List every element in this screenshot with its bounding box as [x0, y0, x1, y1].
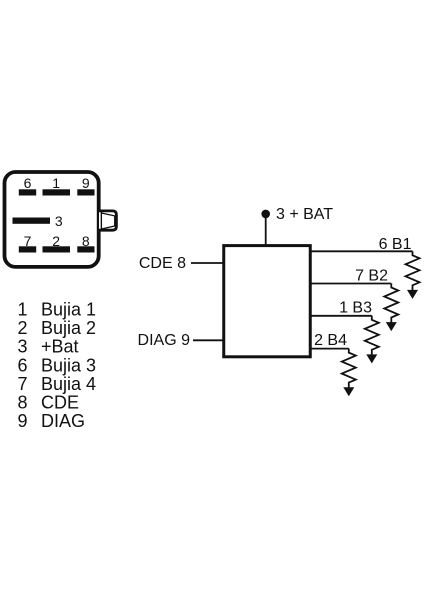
svg-text:6: 6 [17, 355, 27, 375]
svg-text:8: 8 [17, 393, 27, 413]
svg-text:7: 7 [17, 374, 27, 394]
svg-text:1: 1 [52, 175, 60, 191]
svg-text:1 B3: 1 B3 [339, 300, 372, 317]
svg-text:9: 9 [17, 411, 27, 431]
svg-text:9: 9 [82, 175, 90, 191]
svg-text:3: 3 [17, 337, 27, 357]
pin 2 contact bar [43, 246, 71, 252]
wire: DIAG 9 input [193, 339, 224, 341]
connector keying tab (right side) [99, 211, 116, 230]
svg-text:DIAG 9: DIAG 9 [138, 332, 191, 349]
svg-text:CDE: CDE [41, 393, 79, 413]
wire: output B3 [310, 315, 372, 317]
ECU module box U1 [224, 246, 311, 357]
pin 7 contact bar [19, 246, 36, 252]
svg-text:3: 3 [55, 213, 63, 229]
svg-text:1: 1 [17, 300, 27, 320]
connector J1 body outline [5, 172, 99, 267]
pin 6 contact bar [19, 189, 36, 195]
svg-text:7 B2: 7 B2 [355, 268, 388, 285]
wire: output B2 [310, 283, 391, 285]
svg-text:Bujia 1: Bujia 1 [41, 300, 96, 320]
pin 3 contact bar [13, 218, 51, 224]
connector tab inner face [101, 213, 114, 229]
pin 9 contact bar [77, 189, 94, 195]
svg-text:DIAG: DIAG [41, 411, 85, 431]
wire: output B4 [310, 348, 349, 350]
spark plug gap B3 (zigzag + arrow) [365, 316, 379, 364]
wire: BAT dot to box top [265, 216, 267, 245]
spark plug gap B2 (zigzag + arrow) [384, 284, 398, 332]
spark plug gap B4 (zigzag + arrow) [342, 349, 356, 397]
svg-text:2: 2 [17, 318, 27, 338]
svg-text:+Bat: +Bat [41, 337, 79, 357]
wire: output B1 [310, 250, 413, 252]
wire: CDE 8 input [191, 262, 224, 264]
svg-text:3 + BAT: 3 + BAT [276, 206, 333, 223]
svg-text:Bujia 3: Bujia 3 [41, 355, 96, 375]
svg-text:2 B4: 2 B4 [314, 332, 347, 349]
svg-text:CDE 8: CDE 8 [139, 255, 186, 272]
svg-text:Bujia 2: Bujia 2 [41, 318, 96, 338]
connector tab inner edge line [100, 212, 102, 230]
pin 8 contact bar [77, 246, 94, 252]
spark plug gap B1 (zigzag + arrow) [406, 251, 420, 299]
node 3 +BAT dot [261, 210, 270, 219]
svg-text:6: 6 [24, 175, 32, 191]
pin 1 contact bar [43, 189, 71, 195]
svg-text:Bujia 4: Bujia 4 [41, 374, 96, 394]
